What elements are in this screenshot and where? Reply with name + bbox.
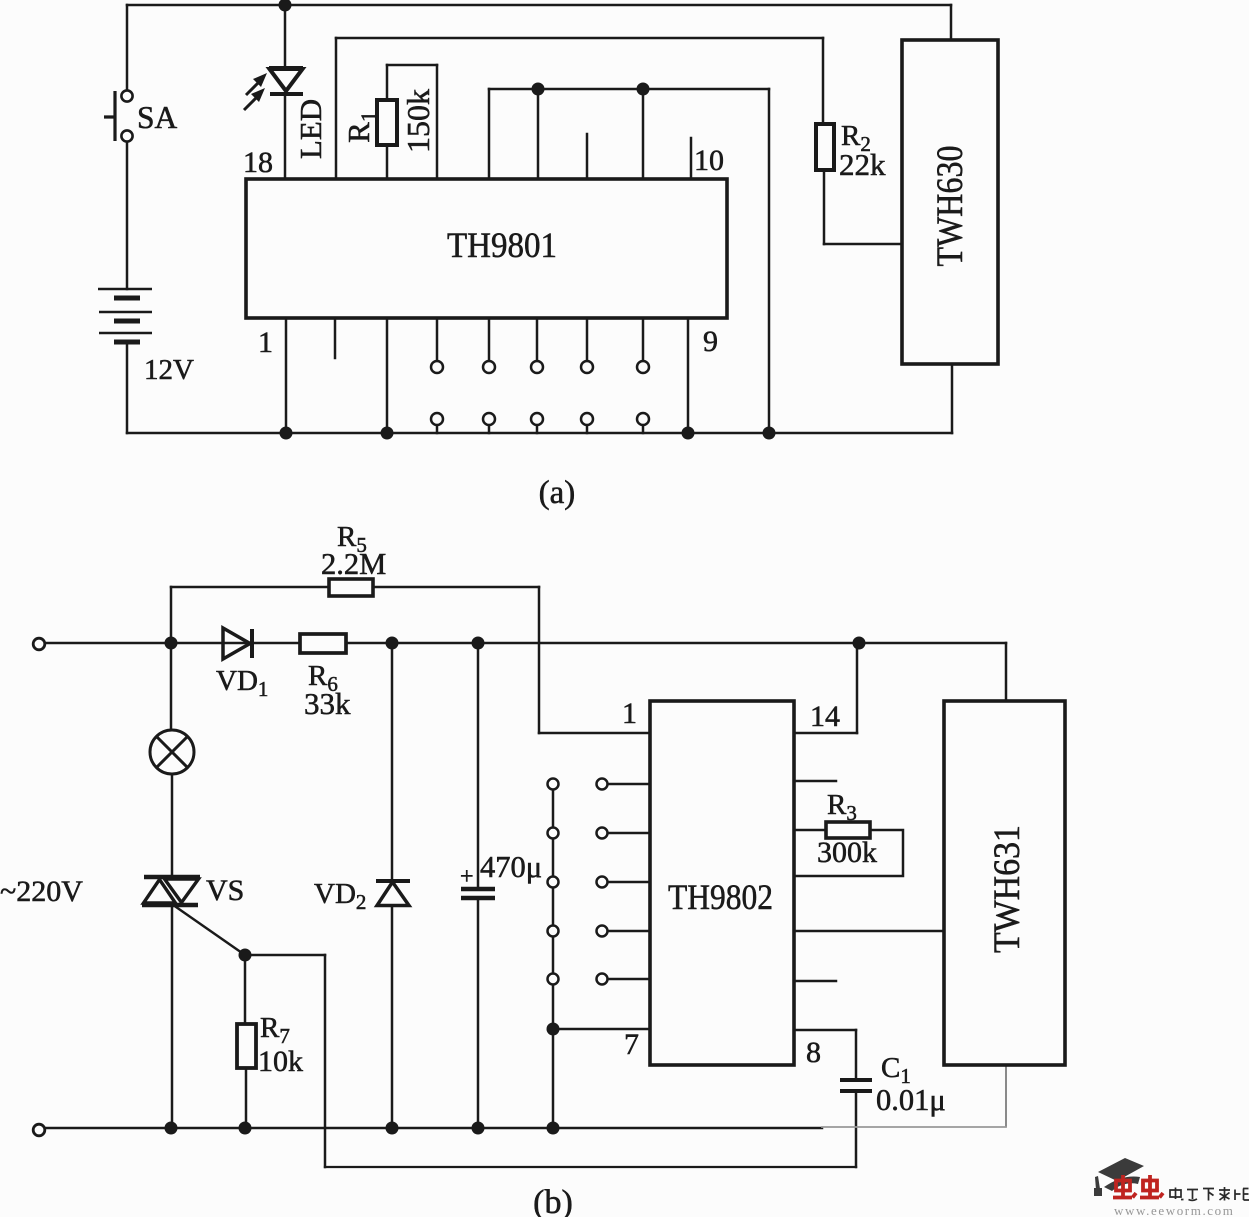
wire: TWH631 bottom pin leg (faded)	[1005, 1065, 1007, 1126]
wire: TWH630 bottom pin to rail	[951, 364, 954, 433]
wire: R1 loop top horizontal	[387, 64, 437, 67]
wire: gate node to R7	[244, 955, 247, 1024]
svg-text:22k: 22k	[839, 147, 886, 182]
wire: gate loop bottom horizontal	[325, 1166, 856, 1168]
switch SA	[104, 90, 133, 141]
resistor R7	[237, 1024, 256, 1068]
IC TH9802	[650, 701, 794, 1065]
svg-text:33k: 33k	[304, 686, 351, 721]
svg-text:www.eeworm.com: www.eeworm.com	[1114, 1203, 1234, 1217]
junction dots on rail y=89	[532, 83, 545, 96]
IC TWH630	[902, 40, 998, 364]
resistor R2	[816, 124, 834, 170]
wire: rail y=89 left leg to TH9801	[488, 89, 491, 179]
triac VS	[142, 877, 200, 905]
connector circles column left (b)	[548, 779, 559, 985]
wire: R1 loop right leg to TH9801 top	[436, 65, 439, 179]
wire: LED anode from top rail	[284, 5, 287, 68]
svg-text:+: +	[460, 864, 474, 890]
wire: rail y=38 left leg to TH9801 top	[335, 38, 338, 179]
wire: gate loop left leg down	[324, 955, 327, 1167]
wire: AC live rail of circuit (b)	[45, 642, 1006, 645]
AC input terminal bottom	[33, 1124, 45, 1136]
svg-text:9: 9	[703, 325, 718, 358]
connector circles column right (b)	[597, 779, 608, 985]
junction dots on bottom rail (a)	[280, 427, 776, 440]
wire: pin 14 riser to AC rail	[856, 643, 859, 733]
svg-text:0.01μ: 0.01μ	[876, 1083, 946, 1117]
svg-text:2.2M: 2.2M	[321, 547, 386, 581]
wire: R3 right lead and loop	[794, 830, 903, 876]
wire: left connector column vertical	[552, 779, 555, 1128]
wire: TWH631 top pin leg	[1005, 643, 1008, 701]
wire: floating stub pin on TH9801 top	[586, 134, 589, 179]
svg-text:7: 7	[624, 1028, 639, 1061]
wire: gate loop right leg up to C1	[855, 1093, 858, 1167]
wire: second rail y=38 feeding R2	[336, 37, 823, 40]
svg-text:10: 10	[694, 144, 724, 177]
svg-text:8: 8	[806, 1036, 821, 1069]
wire: connector column to pin 7 of TH9802	[553, 1028, 650, 1031]
diode VD2 (zener)	[376, 881, 410, 906]
wire: top positive rail of circuit (a)	[127, 4, 951, 7]
connector circles under TH9801 (row 2)	[431, 413, 649, 425]
wire: rail y=89 middle leg 2 to TH9801	[642, 89, 645, 179]
svg-text:(a): (a)	[539, 475, 576, 511]
svg-text:SA: SA	[137, 100, 178, 135]
wire: lamp to triac VS	[171, 774, 174, 875]
wire: R1 lower lead to TH9801 top	[386, 145, 389, 179]
wire: battery negative down to bottom rail	[126, 342, 129, 433]
wire: LED cathode to pin 18 of TH9801	[284, 95, 287, 179]
wire: VD2 lower lead to rail	[391, 906, 394, 1128]
svg-text:TH9801: TH9801	[447, 225, 557, 265]
watermark text dianzi xiazaizhan	[1170, 1187, 1249, 1201]
wire: TWH630 top pin from rail	[950, 5, 953, 40]
svg-text:(b): (b)	[533, 1184, 573, 1217]
wire: bottom rail faded right part	[822, 1126, 1006, 1128]
resistor R3	[826, 822, 870, 838]
IC TWH631	[944, 701, 1065, 1065]
connector circles under TH9801 (row 1)	[431, 361, 649, 373]
svg-text:18: 18	[243, 146, 273, 179]
wire: rail y=89 middle leg 1 to TH9801	[537, 89, 540, 179]
svg-text:14: 14	[810, 700, 840, 733]
wire: R3 left lead	[794, 829, 826, 832]
wire: pin 9 of TH9801 to bottom rail	[687, 318, 690, 433]
wire: R2 to TWH630 left pin	[824, 243, 902, 246]
wire: third rail y=89 over TH9801	[489, 88, 769, 91]
wire: pin 1 of TH9801 to bottom rail	[285, 318, 288, 433]
wire: right connector stubs to TH9802	[608, 784, 650, 979]
battery 12V	[98, 289, 152, 342]
wire: TH9802 to TWH631 pin	[794, 930, 944, 933]
wire: R5 right leg down to pin 1 level	[538, 587, 541, 733]
wire: TH9801 bottom pin to rail	[386, 318, 389, 433]
wire: into pin 1 of TH9802	[539, 732, 650, 735]
wire: SA to battery positive	[126, 141, 129, 289]
capacitor 470u electrolytic	[461, 889, 495, 898]
svg-text:1: 1	[258, 326, 273, 359]
resistor R1	[377, 100, 397, 145]
wire: capacitor 470u lower lead to rail	[477, 899, 480, 1128]
wire: rail y=38 right leg down to R2 top	[822, 38, 825, 124]
junction dot on top rail at LED	[279, 0, 292, 12]
resistor R5	[329, 579, 373, 596]
junction dots on AC rail	[165, 637, 866, 650]
svg-text:150k: 150k	[400, 89, 436, 153]
LED light arrows	[244, 73, 267, 110]
wire: R5 horizontal line	[171, 586, 539, 589]
wire: left rail down to switch SA	[126, 5, 129, 91]
wire: connector stubs under TH9801	[437, 318, 643, 433]
wire: pin 8 lead of TH9802	[794, 1029, 856, 1032]
LED diode	[269, 68, 303, 94]
resistor R6	[300, 634, 346, 653]
wire: R2 bottom lead	[823, 170, 826, 244]
wire: triac gate diagonal	[176, 907, 245, 955]
svg-text:TWH630: TWH630	[930, 146, 971, 267]
wire: R5 loop left leg	[170, 587, 173, 643]
svg-text:~220V: ~220V	[0, 875, 83, 908]
diode VD1	[223, 628, 252, 659]
svg-text:300k: 300k	[817, 836, 877, 869]
svg-text:TWH631: TWH631	[987, 825, 1028, 953]
watermark graduation cap	[1094, 1158, 1144, 1196]
wire: lamp upper lead	[170, 643, 173, 730]
svg-text:1: 1	[622, 697, 637, 730]
svg-text:TH9802: TH9802	[668, 877, 773, 917]
watermark red characters chongchong	[1113, 1175, 1163, 1198]
svg-text:10k: 10k	[258, 1045, 303, 1078]
wire: short stub under TH9801	[334, 318, 337, 358]
wire: pin 8 down to C1 top	[855, 1030, 858, 1077]
svg-text:VS: VS	[206, 874, 244, 907]
wire: right bypass leg from rail y=89 to bottom rail	[768, 89, 771, 433]
lamp	[150, 730, 194, 774]
wire: capacitor 470u upper lead	[477, 643, 480, 887]
wire: R1 upper lead	[386, 65, 389, 100]
junction dot triac gate node	[239, 949, 252, 962]
wire: pin 10 stub on TH9801 top	[690, 138, 693, 179]
AC input terminal top	[33, 638, 45, 650]
wire: bottom ground rail of circuit (a)	[127, 432, 952, 435]
wire: gate node horizontal to loop leg	[245, 954, 325, 957]
junction dot connector column to pin 7	[547, 1023, 560, 1036]
wire: AC neutral bottom rail of circuit (b)	[45, 1127, 822, 1130]
svg-text:LED: LED	[293, 99, 328, 159]
wire: VD2 upper lead	[391, 643, 394, 880]
svg-text:470μ: 470μ	[480, 850, 542, 884]
wire: triac to bottom rail	[171, 907, 174, 1128]
wire: stub pin on TH9802 right (lower)	[794, 980, 836, 983]
wire: R7 bottom lead to rail	[245, 1068, 248, 1128]
capacitor C1	[840, 1080, 872, 1091]
IC TH9801	[246, 179, 727, 318]
junction dots on bottom rail (b)	[165, 1122, 560, 1135]
wire: pin 14 lead of TH9802	[794, 732, 857, 735]
svg-text:12V: 12V	[144, 354, 194, 386]
wire: stub pin on TH9802 right (upper)	[794, 780, 836, 783]
